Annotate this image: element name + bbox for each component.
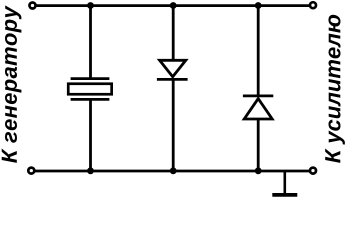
wire: bottom rail [35,170,310,173]
wire: middle branch lower [172,79,175,170]
junction: top middle [170,2,177,9]
junction: bottom middle [170,167,177,174]
terminal: top-right [310,2,316,8]
junction: bottom right [255,167,262,174]
terminal: bottom-left [28,168,34,174]
diode VD2 (cathode up) [243,96,273,119]
wire: right branch lower [257,119,260,171]
wire: ground stub [283,171,286,194]
node: К усилителю label [325,15,345,163]
wire: top rail [36,4,310,7]
ground [272,193,297,197]
crystal ZQ1 [68,79,111,100]
wire: crystal branch lower [89,99,92,170]
node: К генератору label [2,5,22,163]
wire: middle branch upper [172,6,175,62]
junction: top right [255,2,262,9]
diode VD1 (cathode down) [157,60,188,79]
terminal: top-left [30,3,36,9]
junction: top crystal [87,2,94,9]
junction: bottom crystal [87,167,94,174]
wire: right branch upper [257,6,260,97]
terminal: bottom-right [310,168,316,174]
wire: crystal branch upper [89,6,92,78]
